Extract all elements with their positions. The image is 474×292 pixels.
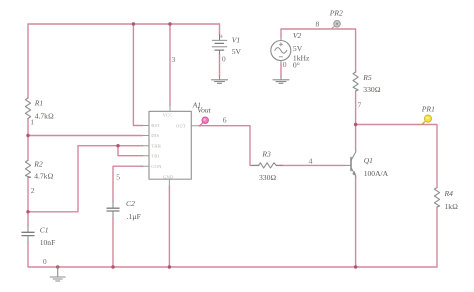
svg-text:10nF: 10nF xyxy=(40,238,56,247)
pin stub RST xyxy=(143,125,150,127)
svg-text:0: 0 xyxy=(43,257,47,266)
svg-text:OUT: OUT xyxy=(176,123,186,128)
resistor R1 xyxy=(25,98,30,119)
transistor Q1 xyxy=(344,150,356,177)
capacitor C2 xyxy=(107,202,119,219)
resistor R3 horizontal xyxy=(252,163,284,168)
svg-text:100A/A: 100A/A xyxy=(364,169,389,178)
wire C2 to bottom rail xyxy=(112,218,114,267)
junction top rail RST xyxy=(132,22,135,25)
svg-text:1kΩ: 1kΩ xyxy=(445,202,459,211)
ground below V1 xyxy=(212,76,228,83)
svg-text:7: 7 xyxy=(358,101,362,110)
svg-text:R3: R3 xyxy=(261,150,271,159)
svg-text:TRI: TRI xyxy=(151,153,159,158)
junction top rail VCC xyxy=(168,22,171,25)
resistor R2 xyxy=(25,160,30,177)
svg-text:R2: R2 xyxy=(33,159,43,168)
probe A1 Vout xyxy=(199,117,208,126)
wire left rail R2-C1 xyxy=(27,178,29,226)
svg-text:6: 6 xyxy=(223,116,227,125)
probe PR2 xyxy=(331,21,341,30)
svg-text:PR1: PR1 xyxy=(421,105,435,114)
battery V1 xyxy=(212,35,227,55)
svg-text:R4: R4 xyxy=(444,189,454,198)
svg-text:5V: 5V xyxy=(293,44,303,53)
pin stub OUT xyxy=(191,125,199,127)
resistor R5 xyxy=(353,72,358,91)
wire CON net node 5 xyxy=(113,166,143,201)
svg-text:3: 3 xyxy=(172,55,176,64)
svg-text:5: 5 xyxy=(116,172,120,181)
svg-text:THR: THR xyxy=(151,143,162,148)
op-amp/timer U1 box xyxy=(149,111,191,179)
svg-text:8: 8 xyxy=(316,20,320,29)
svg-text:4.7kΩ: 4.7kΩ xyxy=(35,112,54,121)
junction node 2 THR xyxy=(26,210,29,213)
probe PR1 xyxy=(421,115,431,125)
pin stub CON xyxy=(141,165,149,167)
junction bottom C2 xyxy=(111,265,114,268)
svg-text:V2: V2 xyxy=(293,31,302,40)
svg-text:VCC: VCC xyxy=(163,112,173,117)
capacitor C1 xyxy=(22,226,34,243)
svg-text:0: 0 xyxy=(222,55,226,64)
svg-text:330Ω: 330Ω xyxy=(363,85,380,94)
svg-text:C1: C1 xyxy=(40,225,49,234)
svg-text:R5: R5 xyxy=(362,73,372,82)
svg-text:330Ω: 330Ω xyxy=(259,173,276,182)
wire THR net node 2 xyxy=(28,146,143,212)
wire collector rail to R4 xyxy=(356,125,437,188)
wire RST net xyxy=(133,24,142,126)
junction node 1 DIS xyxy=(26,134,29,137)
svg-text:2: 2 xyxy=(31,186,35,195)
wire R5 to junction node 7 xyxy=(355,91,357,150)
svg-text:DIS: DIS xyxy=(151,133,159,138)
ground bottom rail xyxy=(50,267,65,281)
svg-text:4.7kΩ: 4.7kΩ xyxy=(34,172,53,181)
resistor R4 xyxy=(434,188,439,208)
wire left rail C1-bottom xyxy=(28,243,437,268)
svg-text:GND: GND xyxy=(163,174,174,179)
svg-text:CON: CON xyxy=(151,164,162,169)
wire DIS net node 1 xyxy=(28,135,143,137)
svg-text:0: 0 xyxy=(283,60,287,69)
svg-text:.1µF: .1µF xyxy=(127,212,141,221)
pin stub THR xyxy=(143,145,150,147)
wire R4 to bottom rail xyxy=(436,207,438,267)
svg-text:Vout: Vout xyxy=(197,106,211,115)
svg-text:4: 4 xyxy=(309,156,313,165)
pin stub VCC xyxy=(169,106,171,112)
svg-text:C2: C2 xyxy=(126,199,135,208)
svg-text:1: 1 xyxy=(30,118,34,127)
wire GND pin to bottom rail xyxy=(168,186,170,267)
wire TRI link xyxy=(118,146,143,156)
wire left rail mid R1-R2 xyxy=(27,119,29,161)
wire battery to ground xyxy=(219,54,221,76)
svg-text:PR2: PR2 xyxy=(329,8,343,17)
wire OUT net node 6 xyxy=(199,126,259,166)
svg-text:R1: R1 xyxy=(34,99,43,108)
svg-text:0°: 0° xyxy=(293,60,300,69)
ground below V2 xyxy=(273,76,289,83)
pin stub GND xyxy=(168,179,170,186)
svg-text:V1: V1 xyxy=(232,36,240,45)
wire V2 top rail node 8 xyxy=(281,29,356,72)
svg-text:5V: 5V xyxy=(232,47,242,56)
junction THR-TRI xyxy=(116,144,119,147)
svg-text:RST: RST xyxy=(151,123,160,128)
wire emitter to bottom rail xyxy=(355,177,357,267)
wire V2 to ground xyxy=(280,64,282,76)
wire R3 to base node 4 xyxy=(276,164,344,166)
svg-text:Q1: Q1 xyxy=(364,156,373,165)
junction bottom ground xyxy=(56,265,59,268)
AC source V2 xyxy=(271,37,291,64)
junction collector rail xyxy=(354,123,357,126)
wire top-left rail xyxy=(28,24,220,98)
junction bottom GND pin xyxy=(168,265,171,268)
pin stub TRI xyxy=(143,155,150,157)
wire VCC net node 3 xyxy=(169,24,171,106)
wire battery drop xyxy=(219,24,221,35)
junction bottom emitter xyxy=(354,265,357,268)
pin stub DIS xyxy=(143,135,150,137)
